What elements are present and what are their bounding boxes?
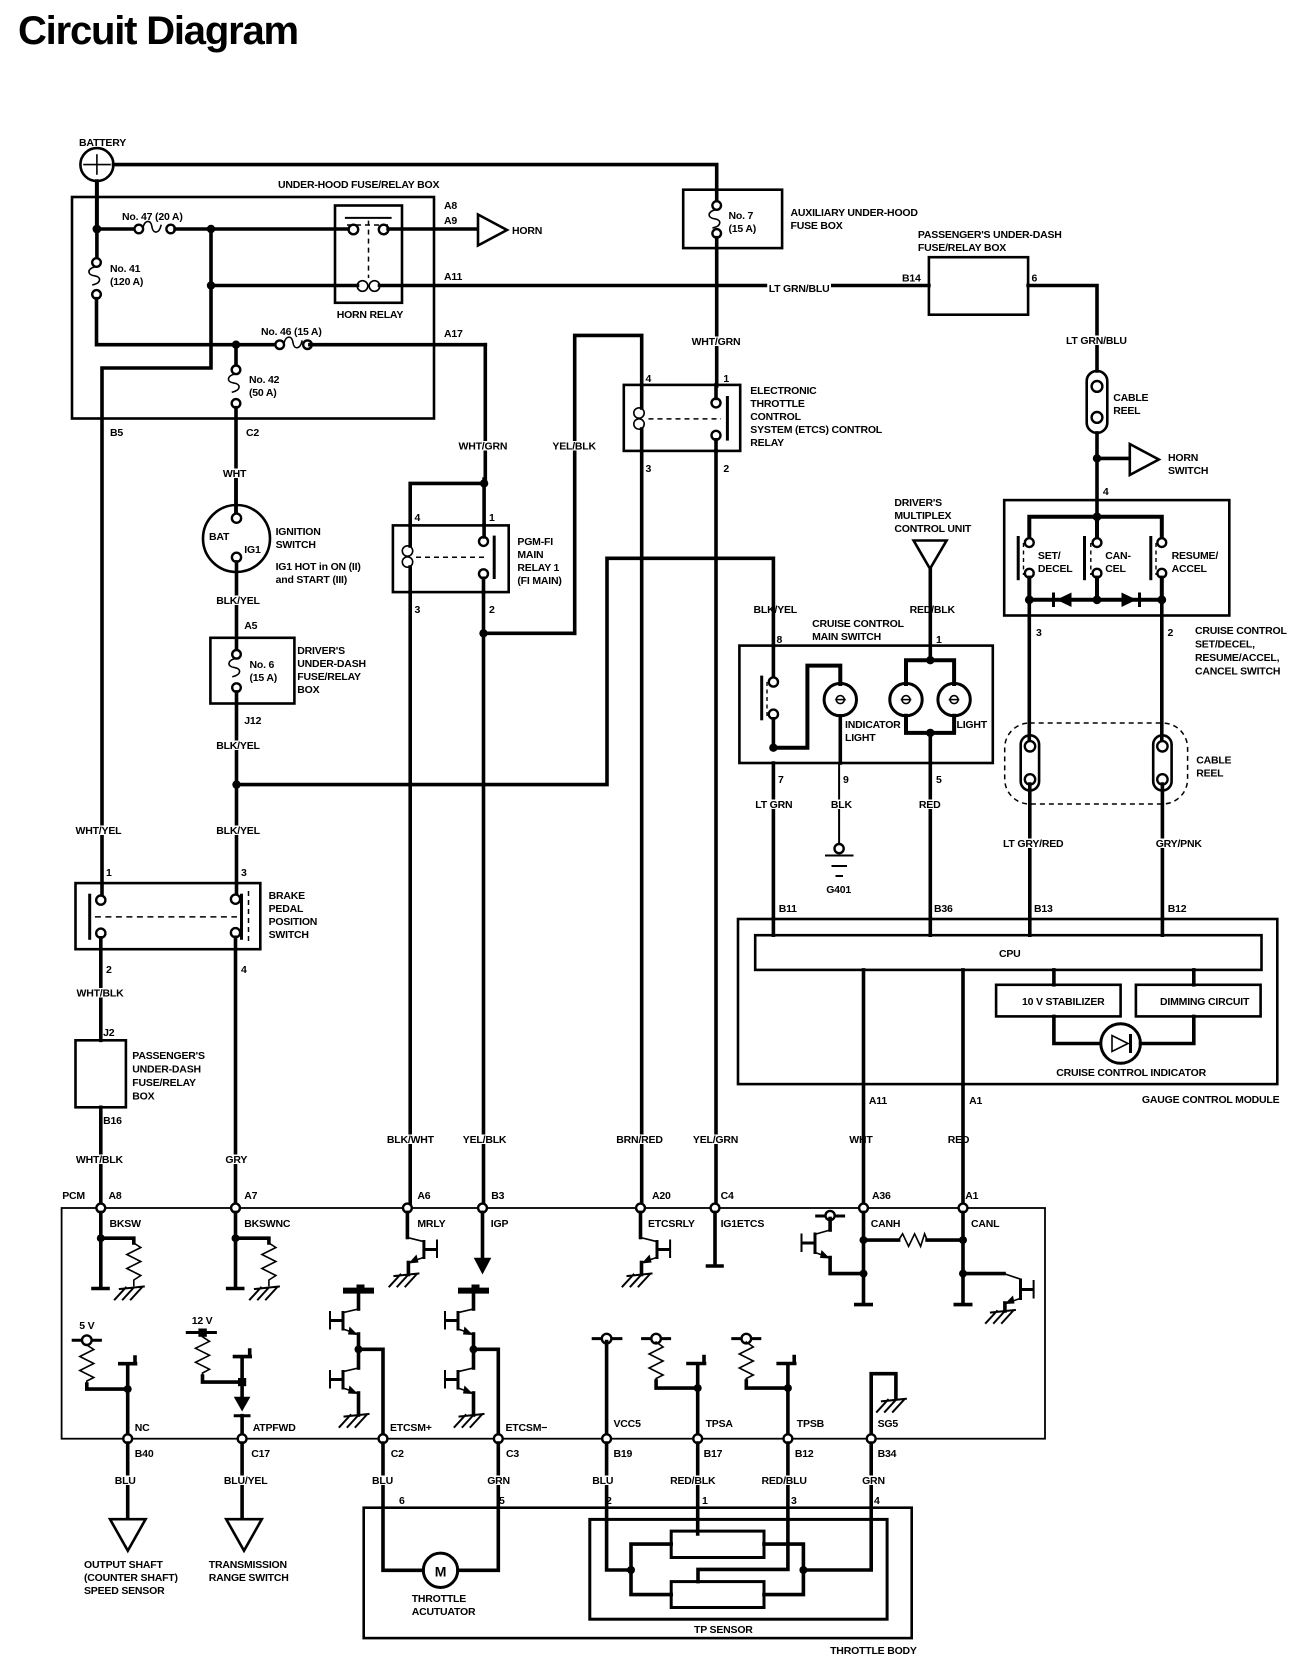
- motor throttle actuator: [412, 1553, 476, 1618]
- wire YEL/GRN ETCS pin2 to PCM C4: [714, 451, 718, 1204]
- wire BLK/WHT PGM-FI pin3 to PCM A6: [408, 592, 412, 1204]
- svg-text:SYSTEM (ETCS) CONTROL: SYSTEM (ETCS) CONTROL: [750, 424, 883, 436]
- wire color labels above PCM: [385, 1134, 971, 1146]
- cruise set/decel/resume/cancel switch box: [1004, 500, 1287, 677]
- svg-text:B40: B40: [135, 1448, 154, 1460]
- wire BLU C2 to throttle actuator: [371, 1443, 424, 1570]
- svg-text:5 V: 5 V: [79, 1320, 94, 1332]
- wire to light bulbs: [906, 660, 954, 684]
- svg-text:B19: B19: [614, 1448, 633, 1460]
- svg-text:No. 7: No. 7: [729, 210, 754, 222]
- svg-text:PEDAL: PEDAL: [269, 903, 304, 915]
- svg-text:LT GRN/BLU: LT GRN/BLU: [1066, 335, 1127, 347]
- switch CANCEL: [1085, 536, 1132, 580]
- svg-text:OUTPUT SHAFT: OUTPUT SHAFT: [84, 1559, 163, 1571]
- svg-text:A6: A6: [417, 1190, 430, 1202]
- svg-text:(120 A): (120 A): [110, 276, 143, 288]
- wire indicator bulb to pin 9: [838, 716, 842, 763]
- svg-text:AUXILIARY UNDER-HOOD: AUXILIARY UNDER-HOOD: [791, 207, 919, 219]
- svg-text:THROTTLE BODY: THROTTLE BODY: [830, 1645, 917, 1657]
- svg-text:ETCSRLY: ETCSRLY: [648, 1218, 695, 1230]
- svg-text:PCM: PCM: [62, 1190, 85, 1202]
- svg-text:A36: A36: [872, 1190, 891, 1202]
- svg-text:(FI MAIN): (FI MAIN): [517, 575, 561, 587]
- pin C4: [711, 1190, 765, 1230]
- svg-text:BAT: BAT: [209, 531, 230, 543]
- dimming circuit box: [1136, 970, 1261, 1016]
- svg-text:1: 1: [106, 867, 112, 879]
- svg-text:VCC5: VCC5: [614, 1418, 642, 1430]
- svg-text:SPEED SENSOR: SPEED SENSOR: [84, 1585, 165, 1597]
- svg-text:BLK/YEL: BLK/YEL: [216, 595, 260, 607]
- svg-text:9: 9: [843, 774, 849, 786]
- wire BLK pin9 to G401: [829, 763, 854, 844]
- wire to indicator bulb: [773, 666, 840, 748]
- wire A17 out of box: [310, 343, 485, 347]
- pin C2: [379, 1434, 405, 1460]
- svg-text:CPU: CPU: [999, 948, 1021, 960]
- svg-text:SWITCH: SWITCH: [269, 929, 309, 941]
- wire GRN C3 to throttle actuator: [458, 1443, 511, 1570]
- wire GRN B34 into TP sensor: [803, 1443, 886, 1570]
- svg-text:B13: B13: [1034, 903, 1053, 915]
- wire RED pin5 to gauge B36: [917, 763, 953, 919]
- wire C2 WHT to ignition switch: [221, 468, 248, 514]
- wire No.41 to No.46 junction: [97, 299, 233, 345]
- svg-text:IGP: IGP: [491, 1218, 509, 1230]
- pin labels 7 9 5: [778, 774, 942, 786]
- wire BLK/YEL J12 to junction: [215, 692, 262, 785]
- svg-text:1: 1: [489, 512, 495, 524]
- fuse No.42 (50 A): [228, 345, 279, 408]
- wire WHT gauge A11 to PCM A36: [864, 970, 888, 1204]
- wire A11 horn relay coil: [207, 271, 929, 290]
- svg-text:BLK/YEL: BLK/YEL: [216, 825, 260, 837]
- svg-text:A20: A20: [652, 1190, 671, 1202]
- svg-text:LT GRY/RED: LT GRY/RED: [1003, 838, 1064, 850]
- wire pin3 to cable reel: [1029, 600, 1042, 741]
- svg-text:and START (III): and START (III): [276, 574, 347, 586]
- svg-text:(COUNTER SHAFT): (COUNTER SHAFT): [84, 1572, 178, 1584]
- svg-text:BKSWNC: BKSWNC: [244, 1218, 291, 1230]
- svg-text:BRAKE: BRAKE: [269, 890, 306, 902]
- cable reel (lower, dashed): [1005, 723, 1232, 804]
- BKSWNC input circuit: [228, 1212, 279, 1299]
- svg-text:PGM-FI: PGM-FI: [517, 536, 553, 548]
- svg-text:(15 A): (15 A): [729, 223, 757, 235]
- svg-text:C2: C2: [246, 427, 259, 439]
- svg-text:BLU: BLU: [372, 1475, 393, 1487]
- svg-text:B12: B12: [1168, 903, 1187, 915]
- svg-text:CRUISE CONTROL INDICATOR: CRUISE CONTROL INDICATOR: [1056, 1067, 1206, 1079]
- driver's multiplex control unit: [894, 497, 972, 569]
- svg-text:YEL/GRN: YEL/GRN: [693, 1134, 738, 1146]
- LED cruise control indicator: [1054, 1016, 1207, 1079]
- svg-text:GRY/PNK: GRY/PNK: [1156, 838, 1203, 850]
- svg-text:BKSW: BKSW: [110, 1218, 142, 1230]
- svg-text:RED: RED: [919, 799, 941, 811]
- svg-text:YEL/BLK: YEL/BLK: [552, 441, 596, 453]
- wire BLU/YEL C17 to range switch: [222, 1443, 269, 1518]
- wire brake pin2 WHT/BLK to J2: [75, 938, 126, 1041]
- svg-text:SET/DECEL,: SET/DECEL,: [1195, 639, 1255, 651]
- relay ETCS control: [624, 373, 883, 475]
- svg-text:IG1ETCS: IG1ETCS: [721, 1218, 765, 1230]
- main switch contact: [762, 646, 778, 749]
- svg-text:B34: B34: [878, 1448, 897, 1460]
- brake pedal position switch: [76, 883, 318, 949]
- svg-text:J2: J2: [103, 1027, 115, 1039]
- svg-text:SWITCH: SWITCH: [276, 539, 316, 551]
- svg-text:4: 4: [1103, 486, 1109, 498]
- svg-text:CRUISE CONTROL: CRUISE CONTROL: [812, 618, 904, 630]
- svg-text:WHT/BLK: WHT/BLK: [77, 988, 125, 1000]
- svg-text:A11: A11: [444, 271, 462, 283]
- wire BLU B19 into TP sensor: [591, 1443, 631, 1570]
- svg-text:1: 1: [702, 1495, 708, 1507]
- svg-text:WHT/GRN: WHT/GRN: [459, 441, 508, 453]
- svg-text:HORN: HORN: [512, 225, 542, 237]
- node RED/BLK junction: [926, 656, 934, 664]
- svg-text:CABLE: CABLE: [1196, 755, 1231, 767]
- svg-text:UNDER-HOOD FUSE/RELAY BOX: UNDER-HOOD FUSE/RELAY BOX: [278, 179, 439, 191]
- svg-text:DRIVER'S: DRIVER'S: [894, 497, 942, 509]
- wire WHT/GRN No.7 to ETCS relay pin 1: [690, 238, 742, 386]
- svg-text:A8: A8: [109, 1190, 122, 1202]
- push-pull ETCSM-: [445, 1285, 548, 1435]
- pin B34: [867, 1434, 897, 1460]
- TP sensor right bracket: [764, 1544, 807, 1595]
- 5V supply pull-up: [72, 1320, 128, 1389]
- svg-text:TPSA: TPSA: [706, 1418, 734, 1430]
- svg-text:TP SENSOR: TP SENSOR: [694, 1624, 753, 1636]
- svg-text:WHT/BLK: WHT/BLK: [76, 1154, 124, 1166]
- svg-text:SG5: SG5: [878, 1418, 899, 1430]
- ETCS relay contact: [649, 385, 728, 451]
- wire B5 branch: [102, 229, 211, 896]
- svg-text:IG1: IG1: [244, 544, 261, 556]
- wire YEL/BLK PGM-FI pin2 junction: [479, 592, 574, 1204]
- svg-text:B14: B14: [902, 273, 921, 285]
- wire RED/BLK B17 wiper upper: [669, 1443, 718, 1534]
- wire RED/BLU B12 wiper lower jog: [698, 1443, 808, 1582]
- svg-text:WHT: WHT: [849, 1134, 873, 1146]
- svg-text:A5: A5: [244, 620, 257, 632]
- cable reel connector left: [1021, 735, 1039, 790]
- pin A36: [859, 1190, 900, 1230]
- transistor Q CANL driver: [963, 1274, 1034, 1323]
- output shaft speed sensor: [84, 1519, 178, 1597]
- svg-text:FUSE/RELAY BOX: FUSE/RELAY BOX: [918, 242, 1006, 254]
- svg-text:G401: G401: [826, 884, 851, 896]
- svg-text:BLU: BLU: [592, 1475, 613, 1487]
- svg-text:C4: C4: [721, 1190, 734, 1202]
- svg-text:CRUISE CONTROL: CRUISE CONTROL: [1195, 625, 1287, 637]
- svg-text:A11: A11: [869, 1095, 887, 1107]
- svg-text:TRANSMISSION: TRANSMISSION: [209, 1559, 287, 1571]
- svg-text:ATPFWD: ATPFWD: [253, 1422, 297, 1434]
- pin C17: [238, 1434, 271, 1460]
- svg-text:GRN: GRN: [487, 1475, 510, 1487]
- driver's under-dash fuse/relay box No.6 (15 A): [210, 638, 365, 704]
- svg-text:BLK/WHT: BLK/WHT: [387, 1134, 435, 1146]
- svg-text:MAIN: MAIN: [517, 549, 543, 561]
- svg-text:1: 1: [936, 634, 942, 646]
- svg-text:POSITION: POSITION: [269, 916, 318, 928]
- svg-text:DECEL: DECEL: [1038, 563, 1073, 575]
- wire LT GRN/BLU to cable reel: [767, 283, 1128, 371]
- TPSA pull-up: [641, 1334, 698, 1388]
- wire horn relay to HORN: [388, 227, 477, 231]
- throttle body box: [364, 1508, 917, 1657]
- wire brake pin4 GRY to PCM A7: [224, 937, 249, 1204]
- wire LT GRN pin7 to gauge B11: [754, 763, 797, 919]
- svg-text:HORN RELAY: HORN RELAY: [337, 309, 404, 321]
- svg-text:4: 4: [241, 964, 247, 976]
- switch SET/DECEL: [1018, 536, 1073, 580]
- wire battery down to fuse bus: [95, 181, 99, 229]
- svg-text:ACUTUATOR: ACUTUATOR: [412, 1606, 476, 1618]
- TPSA net: [688, 1357, 733, 1435]
- svg-text:RELAY: RELAY: [750, 437, 784, 449]
- svg-text:DRIVER'S: DRIVER'S: [297, 645, 345, 657]
- svg-text:BLK/YEL: BLK/YEL: [754, 604, 798, 616]
- PCM box: [62, 1190, 1045, 1439]
- svg-text:5: 5: [499, 1495, 505, 1507]
- pin B17: [693, 1434, 722, 1460]
- pin B3: [478, 1190, 508, 1230]
- svg-text:ELECTRONIC: ELECTRONIC: [750, 385, 817, 397]
- wires gauge pins into CPU: [773, 919, 1162, 935]
- svg-text:RANGE SWITCH: RANGE SWITCH: [209, 1572, 289, 1584]
- PGM-FI relay coil: [402, 525, 412, 592]
- BKSW input circuit: [93, 1212, 144, 1299]
- svg-text:A7: A7: [244, 1190, 257, 1202]
- svg-text:GRY: GRY: [225, 1154, 247, 1166]
- svg-text:No. 41: No. 41: [110, 263, 141, 275]
- svg-text:ACCEL: ACCEL: [1172, 563, 1208, 575]
- svg-text:MRLY: MRLY: [417, 1218, 445, 1230]
- svg-text:CONTROL UNIT: CONTROL UNIT: [894, 523, 972, 535]
- svg-text:8: 8: [777, 634, 783, 646]
- wire GRY/PNK to gauge B12: [1154, 784, 1204, 919]
- svg-text:IGNITION: IGNITION: [276, 526, 321, 538]
- svg-text:HORN: HORN: [1168, 452, 1198, 464]
- switch RESUME/ACCEL: [1151, 536, 1219, 580]
- CANL net: [955, 1212, 970, 1304]
- ignition switch: [203, 505, 361, 586]
- pin B19: [602, 1434, 632, 1460]
- svg-text:BATTERY: BATTERY: [79, 137, 126, 149]
- svg-text:2: 2: [489, 604, 495, 616]
- wire BRN/RED ETCS pin3 to PCM A20: [640, 451, 644, 1204]
- gauge control module box: [738, 919, 1280, 1106]
- pin A6: [403, 1190, 446, 1230]
- push-pull ETCSM+: [330, 1285, 432, 1435]
- wire pin4 bus in switch: [1029, 512, 1162, 542]
- pin A1: [959, 1190, 1001, 1230]
- wire to horn relay contact: [211, 227, 349, 231]
- svg-text:RED: RED: [948, 1134, 970, 1146]
- wire pin2 to cable reel: [1162, 600, 1174, 741]
- svg-text:No. 42: No. 42: [249, 374, 280, 386]
- pin A20: [636, 1190, 695, 1230]
- svg-text:BOX: BOX: [132, 1091, 154, 1103]
- lamp light left: [890, 683, 922, 715]
- svg-text:B17: B17: [704, 1448, 723, 1460]
- svg-text:B5: B5: [110, 427, 123, 439]
- svg-text:3: 3: [415, 604, 421, 616]
- TP sensor left bracket: [627, 1544, 671, 1595]
- svg-text:A8: A8: [444, 200, 457, 212]
- cable reel connector (upper): [1087, 371, 1149, 433]
- svg-text:CAN-: CAN-: [1105, 550, 1131, 562]
- svg-text:B12: B12: [795, 1448, 814, 1460]
- svg-text:3: 3: [1036, 627, 1042, 639]
- svg-text:DIMMING CIRCUIT: DIMMING CIRCUIT: [1160, 996, 1250, 1008]
- svg-text:Circuit Diagram: Circuit Diagram: [18, 9, 298, 53]
- svg-text:YEL/BLK: YEL/BLK: [463, 1134, 507, 1146]
- svg-text:ETCSM−: ETCSM−: [506, 1422, 548, 1434]
- svg-text:B16: B16: [103, 1115, 122, 1127]
- ground G401: [826, 844, 853, 896]
- svg-text:7: 7: [778, 774, 784, 786]
- svg-text:B36: B36: [934, 903, 953, 915]
- svg-text:WHT/GRN: WHT/GRN: [692, 336, 741, 348]
- node junction No.46/No.42: [232, 341, 240, 349]
- svg-text:FUSE/RELAY: FUSE/RELAY: [297, 671, 361, 683]
- svg-text:RED/BLU: RED/BLU: [762, 1475, 807, 1487]
- CPU box: [755, 935, 1261, 970]
- ETCS relay coil: [634, 385, 644, 451]
- svg-text:1: 1: [723, 373, 729, 385]
- transmission range switch: [209, 1519, 289, 1584]
- svg-text:CANL: CANL: [971, 1218, 1000, 1230]
- TPSB pull-up: [731, 1334, 788, 1388]
- cable reel connector right: [1153, 735, 1171, 790]
- svg-text:C17: C17: [251, 1448, 270, 1460]
- fuse No.41 (120 A): [89, 229, 143, 299]
- battery: [79, 137, 126, 181]
- svg-text:C3: C3: [506, 1448, 519, 1460]
- node junction No.47/horn wire: [207, 225, 215, 233]
- TPSB net: [778, 1357, 824, 1435]
- svg-text:MAIN SWITCH: MAIN SWITCH: [812, 631, 881, 643]
- svg-text:(50 A): (50 A): [249, 387, 277, 399]
- wire C2 down from No.42: [234, 408, 238, 513]
- svg-text:10 V STABILIZER: 10 V STABILIZER: [1022, 996, 1105, 1008]
- resistor TP upper element: [671, 1531, 764, 1557]
- svg-text:(15 A): (15 A): [250, 672, 278, 684]
- svg-text:IG1 HOT in ON (II): IG1 HOT in ON (II): [276, 561, 361, 573]
- pin A8 A9 labels: [444, 200, 457, 227]
- pin B40: [123, 1434, 154, 1460]
- passenger's under-dash fuse/relay box (lower): [76, 1040, 205, 1127]
- lamp indicator light: [824, 683, 901, 744]
- node horn switch junction: [1093, 454, 1101, 462]
- TP sensor box: [590, 1519, 887, 1636]
- node WHT/GRN junction at PGM-FI: [410, 479, 488, 525]
- svg-text:CEL: CEL: [1105, 563, 1126, 575]
- svg-text:REEL: REEL: [1196, 768, 1224, 780]
- svg-text:UNDER-DASH: UNDER-DASH: [132, 1064, 201, 1076]
- SG5 ground hook: [871, 1374, 906, 1434]
- wire battery to No.7 fuse: [114, 165, 717, 190]
- CANH pull-up and transistor: [801, 1211, 864, 1274]
- svg-text:3: 3: [646, 463, 652, 475]
- svg-text:TPSB: TPSB: [797, 1418, 825, 1430]
- wire BLK/YEL brake pin3: [235, 785, 239, 895]
- svg-text:ETCSM+: ETCSM+: [390, 1422, 432, 1434]
- lamp light right: [938, 683, 988, 731]
- svg-text:CABLE: CABLE: [1113, 392, 1148, 404]
- svg-text:BLK/YEL: BLK/YEL: [216, 740, 260, 752]
- pin A8: [96, 1190, 141, 1230]
- transistor Q ETCSRLY driver: [623, 1212, 671, 1286]
- 12V supply pull-up: [186, 1315, 242, 1382]
- diode right (cathode bar right): [1122, 593, 1140, 608]
- svg-text:UNDER-DASH: UNDER-DASH: [297, 658, 366, 670]
- wire BLU B40 to speed sensor: [113, 1443, 137, 1518]
- svg-text:BOX: BOX: [297, 684, 319, 696]
- svg-text:3: 3: [791, 1495, 797, 1507]
- IGP arrow: [474, 1212, 492, 1274]
- svg-text:A9: A9: [444, 215, 457, 227]
- svg-text:B11: B11: [779, 903, 797, 915]
- svg-text:C2: C2: [391, 1448, 404, 1460]
- svg-text:PASSENGER'S: PASSENGER'S: [132, 1050, 205, 1062]
- svg-text:LT GRN: LT GRN: [755, 799, 792, 811]
- node main switch junction: [769, 744, 777, 752]
- svg-text:THROTTLE: THROTTLE: [412, 1593, 467, 1605]
- svg-text:RED/BLK: RED/BLK: [670, 1475, 716, 1487]
- svg-text:INDICATOR: INDICATOR: [845, 719, 901, 731]
- svg-text:BLU/YEL: BLU/YEL: [224, 1475, 268, 1487]
- wire RED/BLK multiplex to cruise main switch pin 1: [910, 569, 956, 660]
- svg-text:4: 4: [415, 512, 421, 524]
- resistor TP lower element: [671, 1582, 764, 1608]
- svg-text:6: 6: [1032, 273, 1038, 285]
- svg-text:CONTROL: CONTROL: [750, 411, 801, 423]
- wire RED gauge A1 to PCM A1: [963, 970, 982, 1204]
- horn symbol: [478, 215, 542, 246]
- wire WHT/BLK B16 to PCM A8: [74, 1107, 125, 1204]
- svg-text:5: 5: [936, 774, 942, 786]
- passenger's under-dash fuse/relay box (top): [902, 229, 1062, 315]
- svg-text:SET/: SET/: [1038, 550, 1061, 562]
- svg-text:GRN: GRN: [862, 1475, 885, 1487]
- VCC5 supply: [592, 1334, 641, 1434]
- svg-text:RED/BLK: RED/BLK: [910, 604, 956, 616]
- pin B12: [784, 1434, 814, 1460]
- svg-text:2: 2: [106, 964, 112, 976]
- svg-text:B3: B3: [491, 1190, 504, 1202]
- svg-text:M: M: [435, 1564, 446, 1580]
- svg-text:No. 47 (20 A): No. 47 (20 A): [122, 211, 183, 223]
- svg-text:6: 6: [399, 1495, 405, 1507]
- svg-text:BRN/RED: BRN/RED: [616, 1134, 663, 1146]
- svg-text:BLU: BLU: [115, 1475, 136, 1487]
- svg-text:RESUME/: RESUME/: [1172, 550, 1219, 562]
- svg-text:4: 4: [874, 1495, 880, 1507]
- svg-text:FUSE BOX: FUSE BOX: [791, 220, 843, 232]
- svg-text:LIGHT: LIGHT: [845, 732, 876, 744]
- horn relay U-horn: [335, 206, 403, 322]
- diode left (cathode bar left): [1054, 593, 1072, 608]
- svg-text:NC: NC: [135, 1422, 150, 1434]
- svg-text:RELAY 1: RELAY 1: [517, 562, 559, 574]
- svg-text:2: 2: [723, 463, 729, 475]
